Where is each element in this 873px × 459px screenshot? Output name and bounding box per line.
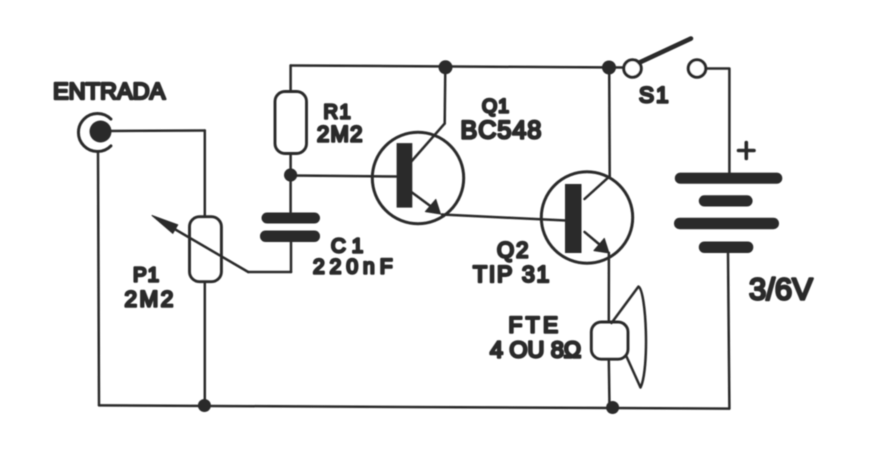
wire C1 bottom lead [290, 242, 293, 272]
svg-text:3/6V: 3/6V [749, 272, 813, 307]
speaker FTE cone [612, 287, 647, 388]
wire bottom rail [99, 405, 729, 408]
resistor R1 [275, 92, 307, 154]
wire R1 top lead [289, 66, 292, 92]
switch S1 right contact [688, 60, 705, 77]
transistor Q2 base bar [565, 184, 582, 253]
input jack ENTRADA outer arc [78, 113, 110, 151]
node A junction dot below R1 [284, 168, 297, 181]
wire top rail [291, 66, 624, 68]
svg-text:2M2: 2M2 [317, 122, 364, 147]
svg-text:S1: S1 [639, 83, 671, 108]
svg-text:BC548: BC548 [461, 117, 543, 145]
wire battery bottom lead [728, 253, 729, 409]
battery B1 plate 2 short [699, 195, 753, 206]
transistor Q1 emitter arrowhead [425, 199, 440, 214]
potentiometer P1 body [190, 217, 222, 282]
svg-text:C1: C1 [331, 235, 369, 258]
svg-text:R1: R1 [324, 102, 353, 124]
wire jack to P1 [108, 129, 205, 132]
svg-text:Q2: Q2 [497, 238, 530, 263]
svg-text:Q1: Q1 [482, 96, 510, 118]
junction dot top rail at S1 [602, 61, 616, 75]
wire R1 bottom lead to node A [289, 154, 292, 213]
transistor Q1 base bar [397, 143, 413, 208]
transistor Q1 emitter line [410, 191, 431, 207]
svg-text:ENTRADA: ENTRADA [53, 78, 166, 104]
transistor Q2 circle [541, 172, 632, 263]
junction dot bottom left [198, 399, 211, 412]
battery B1 plate 3 long [674, 218, 779, 230]
junction dot bottom right [606, 401, 619, 414]
wire speaker bottom lead [608, 359, 611, 407]
svg-text:P1: P1 [133, 264, 160, 287]
svg-text:4 OU 8Ω: 4 OU 8Ω [490, 337, 581, 363]
potentiometer P1 wiper arrow [160, 221, 248, 273]
switch S1 left contact [624, 60, 641, 77]
capacitor C1 top plate [262, 213, 321, 224]
wire left ground vertical [98, 153, 99, 406]
wire S1 to battery top [706, 69, 730, 174]
input jack ENTRADA tip contact [90, 121, 112, 143]
capacitor C1 bottom plate [260, 231, 320, 243]
svg-text:2M2: 2M2 [125, 287, 176, 312]
transistor Q1 collector line [410, 124, 445, 164]
transistor Q2 emitter arrowhead [594, 238, 609, 253]
transistor Q2 emitter line [585, 232, 600, 245]
wire P1 top lead [204, 131, 207, 217]
wire node A to Q1 base [291, 176, 397, 177]
wire C1 to P1 wiper horizontal [248, 271, 291, 274]
battery B1 plate 1 long [675, 173, 783, 184]
speaker FTE coil body [591, 322, 628, 359]
transistor Q2 collector line [585, 176, 610, 199]
battery B1 plus sign [739, 143, 755, 159]
wire Q2 emitter down to speaker [608, 253, 611, 322]
svg-text:FTE: FTE [509, 313, 562, 338]
battery B1 plate 4 short [699, 242, 754, 254]
transistor Q1 circle [372, 132, 463, 223]
svg-text:220nF: 220nF [313, 256, 398, 279]
wire P1 bottom lead [204, 282, 207, 406]
wire Q1 collector to top rail [443, 67, 446, 123]
wire Q1 emitter to Q2 base [442, 215, 566, 221]
switch S1 lever [640, 39, 692, 63]
wire Q2 collector to top rail [608, 68, 611, 177]
junction dot top rail at Q1 [439, 60, 453, 74]
svg-text:TIP 31: TIP 31 [473, 261, 551, 287]
